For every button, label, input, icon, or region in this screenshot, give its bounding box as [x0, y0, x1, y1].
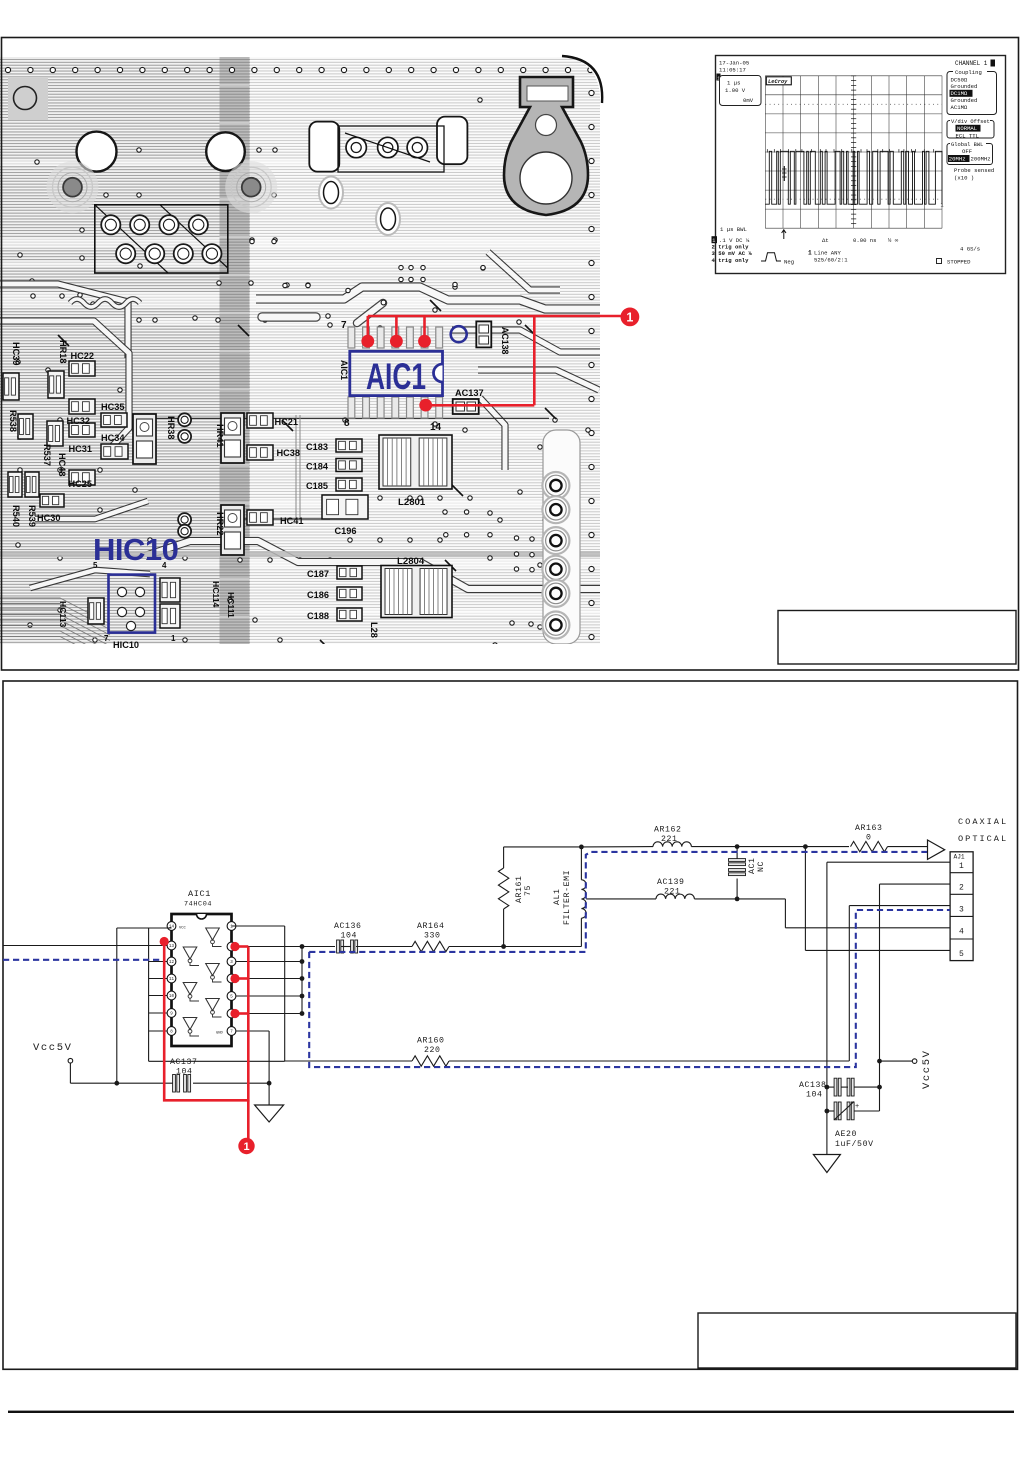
svg-text:GND: GND	[216, 1032, 224, 1036]
svg-text:AIC1: AIC1	[366, 356, 426, 397]
svg-text:1: 1	[171, 634, 176, 643]
svg-text:HC32: HC32	[67, 416, 91, 426]
svg-text:Vcc5V: Vcc5V	[921, 1049, 933, 1089]
svg-text:525/60/2:1: 525/60/2:1	[814, 256, 848, 263]
svg-text:C188: C188	[307, 611, 329, 621]
svg-text:3: 3	[959, 906, 964, 915]
svg-text:20MHz: 20MHz	[949, 155, 966, 162]
svg-text:R537: R537	[42, 444, 52, 466]
svg-text:Grounded: Grounded	[951, 83, 978, 90]
svg-text:L2804: L2804	[397, 556, 425, 567]
svg-text:1: 1	[959, 862, 964, 871]
svg-text:R539: R539	[27, 505, 37, 527]
svg-text:AE20: AE20	[835, 1130, 857, 1139]
svg-text:4 GS/s: 4 GS/s	[960, 246, 980, 253]
svg-text:R538: R538	[8, 410, 18, 432]
svg-text:AC138: AC138	[799, 1081, 827, 1090]
svg-text:4: 4	[162, 561, 167, 570]
svg-text:C185: C185	[306, 481, 328, 491]
svg-text:HC22: HC22	[71, 351, 95, 361]
svg-text:AIC1: AIC1	[339, 360, 349, 380]
svg-text:HR22: HR22	[215, 512, 225, 536]
svg-text:NC: NC	[757, 861, 766, 872]
svg-text:AR164: AR164	[417, 922, 445, 931]
svg-text:½ ∞: ½ ∞	[888, 237, 899, 244]
svg-text:Neg: Neg	[784, 259, 794, 266]
svg-text:Probe sensed: Probe sensed	[954, 167, 994, 174]
svg-text:C196: C196	[335, 526, 357, 536]
svg-text:AR160: AR160	[417, 1037, 445, 1046]
svg-text:L2801: L2801	[398, 497, 426, 508]
svg-text:LeCroy: LeCroy	[768, 79, 788, 85]
svg-text:12: 12	[169, 961, 175, 965]
svg-text:AC137: AC137	[170, 1058, 198, 1067]
svg-text:AC1: AC1	[748, 857, 757, 874]
svg-text:1.00 V: 1.00 V	[725, 87, 746, 94]
svg-text:(x10 ): (x10 )	[954, 175, 974, 182]
svg-text:Δt: Δt	[822, 237, 829, 244]
svg-text:HC113: HC113	[58, 601, 68, 627]
svg-text:221: 221	[664, 888, 681, 897]
svg-text:AC136: AC136	[334, 922, 362, 931]
svg-text:0.00 ns: 0.00 ns	[853, 237, 877, 244]
svg-text:FILTER-EMI: FILTER-EMI	[563, 870, 572, 925]
svg-text:0: 0	[866, 834, 872, 843]
svg-text:1: 1	[941, 203, 944, 209]
svg-text:7: 7	[341, 320, 347, 331]
svg-text:AC138: AC138	[500, 327, 510, 354]
svg-text:14: 14	[430, 422, 442, 433]
svg-text:1: 1	[626, 310, 633, 324]
svg-text:4 trig only: 4 trig only	[712, 257, 750, 264]
svg-text:200MHz: 200MHz	[971, 155, 991, 162]
svg-text:HR18: HR18	[58, 340, 68, 364]
svg-text:104: 104	[341, 932, 358, 941]
svg-text:AC137: AC137	[455, 388, 484, 398]
svg-text:HC35: HC35	[101, 402, 125, 412]
svg-text:OFF: OFF	[962, 148, 972, 155]
svg-text:L28: L28	[369, 622, 379, 638]
svg-text:R540: R540	[11, 505, 21, 527]
svg-text:13: 13	[169, 945, 175, 949]
svg-text:AR161: AR161	[515, 875, 524, 903]
svg-text:STOPPED: STOPPED	[947, 259, 971, 266]
svg-text:1: 1	[243, 1141, 249, 1153]
svg-text:HC41: HC41	[280, 516, 304, 526]
svg-text:HC48: HC48	[57, 453, 67, 477]
svg-text:2: 2	[959, 884, 964, 893]
svg-text:C184: C184	[306, 462, 329, 472]
svg-text:AIC1: AIC1	[188, 889, 211, 899]
svg-text:4: 4	[959, 928, 964, 937]
svg-text:HC111: HC111	[226, 592, 236, 618]
svg-text:11: 11	[169, 978, 175, 982]
svg-text:17-Jan-05: 17-Jan-05	[719, 60, 749, 67]
svg-text:10: 10	[169, 995, 175, 999]
svg-text:HC25: HC25	[69, 479, 93, 489]
svg-text:1 μs BWL: 1 μs BWL	[720, 226, 747, 233]
svg-text:Vcc5V: Vcc5V	[33, 1042, 73, 1054]
svg-text:HC21: HC21	[275, 417, 299, 427]
svg-text:0mV: 0mV	[743, 97, 754, 104]
svg-text:AJ1: AJ1	[954, 854, 965, 861]
svg-text:HC38: HC38	[277, 448, 301, 458]
svg-text:5: 5	[959, 950, 964, 959]
svg-text:VCC: VCC	[179, 927, 187, 931]
svg-text:ECL TTL: ECL TTL	[956, 132, 980, 139]
svg-text:1 μs: 1 μs	[727, 80, 740, 87]
svg-text:1: 1	[808, 250, 812, 257]
svg-text:HR38: HR38	[166, 416, 176, 440]
svg-text:HR41: HR41	[215, 424, 225, 448]
svg-text:AC139: AC139	[657, 878, 685, 887]
svg-text:HC39: HC39	[11, 342, 21, 366]
svg-text:C186: C186	[307, 590, 329, 600]
svg-text:Coupling: Coupling	[955, 69, 982, 76]
svg-text:CHANNEL 1: CHANNEL 1	[955, 60, 988, 67]
svg-text:HC30: HC30	[37, 513, 61, 523]
svg-text:74HC04: 74HC04	[184, 901, 212, 909]
svg-text:5: 5	[93, 561, 98, 570]
svg-text:8: 8	[344, 418, 350, 429]
svg-text:220: 220	[424, 1046, 441, 1055]
svg-text:75: 75	[524, 885, 533, 896]
svg-text:OPTICAL: OPTICAL	[958, 834, 1008, 844]
svg-text:7: 7	[104, 634, 109, 643]
svg-text:221: 221	[661, 835, 678, 844]
svg-text:NORMAL: NORMAL	[957, 125, 977, 132]
svg-text:AC1MΩ: AC1MΩ	[951, 104, 968, 111]
svg-text:AR162: AR162	[654, 826, 682, 835]
svg-text:104: 104	[176, 1068, 193, 1077]
svg-text:104: 104	[806, 1091, 823, 1100]
svg-text:1uF/50V: 1uF/50V	[835, 1139, 874, 1149]
svg-text:11:05:17: 11:05:17	[719, 67, 746, 74]
svg-text:HC34: HC34	[101, 433, 125, 443]
svg-text:HIC10: HIC10	[113, 640, 139, 650]
svg-text:HC31: HC31	[69, 444, 93, 454]
svg-text:AR163: AR163	[855, 824, 883, 833]
svg-text:C183: C183	[306, 442, 328, 452]
svg-text:HC114: HC114	[211, 581, 221, 607]
svg-text:V/div Offset: V/div Offset	[951, 119, 990, 125]
svg-text:AL1: AL1	[553, 888, 562, 905]
svg-text:C187: C187	[307, 569, 329, 579]
svg-text:330: 330	[424, 932, 441, 941]
svg-text:COAXIAL: COAXIAL	[958, 817, 1008, 827]
svg-text:+: +	[855, 1103, 859, 1111]
